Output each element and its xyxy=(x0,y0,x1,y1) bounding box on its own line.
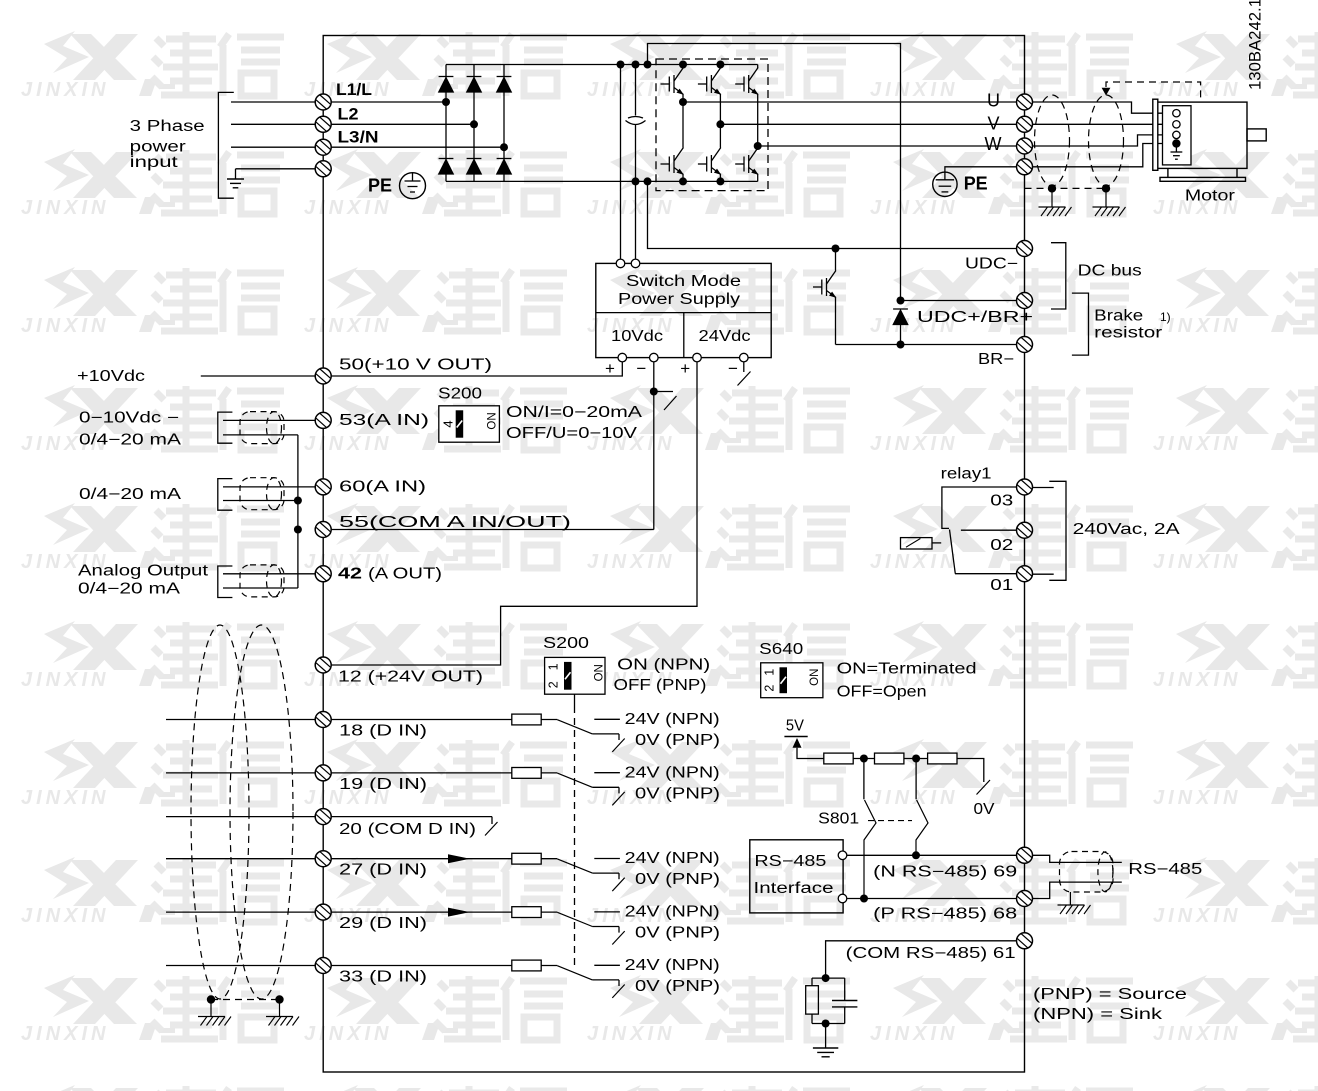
svg-text:S200: S200 xyxy=(543,635,589,652)
svg-text:+: + xyxy=(605,359,615,378)
svg-text:0V: 0V xyxy=(974,801,996,818)
svg-text:L2: L2 xyxy=(338,105,359,123)
svg-text:0V (PNP): 0V (PNP) xyxy=(635,925,720,942)
svg-text:OFF=Open: OFF=Open xyxy=(837,684,927,701)
svg-text:24V (NPN): 24V (NPN) xyxy=(625,711,720,728)
svg-text:(N RS−485) 69: (N RS−485) 69 xyxy=(873,863,1017,880)
svg-text:1: 1 xyxy=(763,669,777,676)
svg-text:33 (D IN): 33 (D IN) xyxy=(339,969,427,986)
svg-text:ON: ON xyxy=(809,669,821,686)
svg-text:ON (NPN): ON (NPN) xyxy=(617,657,710,674)
svg-text:relay1: relay1 xyxy=(941,466,992,483)
svg-text:−: − xyxy=(636,359,646,378)
svg-text:4: 4 xyxy=(440,420,455,427)
svg-text:130BA242.1: 130BA242.1 xyxy=(1247,0,1265,90)
svg-text:0V (PNP): 0V (PNP) xyxy=(635,785,720,802)
svg-text:UDC+/BR+: UDC+/BR+ xyxy=(917,309,1033,326)
svg-text:Analog Output: Analog Output xyxy=(78,562,209,579)
svg-text:01: 01 xyxy=(990,577,1013,594)
svg-text:0V (PNP): 0V (PNP) xyxy=(635,871,720,888)
svg-text:V: V xyxy=(988,114,1000,134)
svg-text:+: + xyxy=(680,359,690,378)
svg-text:0/4−20 mA: 0/4−20 mA xyxy=(78,580,181,597)
svg-text:18 (D IN): 18 (D IN) xyxy=(339,723,427,740)
svg-text:UDC−: UDC− xyxy=(965,256,1018,273)
svg-text:60(A IN): 60(A IN) xyxy=(339,478,426,495)
svg-text:1): 1) xyxy=(1160,310,1171,324)
svg-text:DC bus: DC bus xyxy=(1078,263,1142,280)
svg-text:ON: ON xyxy=(594,664,606,681)
svg-text:24Vdc: 24Vdc xyxy=(699,328,751,345)
svg-text:L1/L: L1/L xyxy=(336,81,372,99)
svg-text:12 (+24V OUT): 12 (+24V OUT) xyxy=(338,669,483,686)
svg-text:ON: ON xyxy=(487,412,499,429)
svg-text:S801: S801 xyxy=(818,811,859,828)
svg-text:resistor: resistor xyxy=(1094,324,1162,341)
svg-text:0/4−20 mA: 0/4−20 mA xyxy=(79,431,182,448)
svg-text:10Vdc: 10Vdc xyxy=(611,328,663,345)
svg-text:50(+10 V OUT): 50(+10 V OUT) xyxy=(339,357,492,374)
svg-text:02: 02 xyxy=(990,537,1013,554)
svg-text:BR−: BR− xyxy=(978,351,1014,368)
svg-text:03: 03 xyxy=(990,492,1013,509)
svg-text:RS−485: RS−485 xyxy=(1128,861,1202,878)
svg-text:Brake: Brake xyxy=(1094,307,1143,324)
svg-text:42: 42 xyxy=(338,565,362,582)
svg-text:24V (NPN): 24V (NPN) xyxy=(625,850,720,867)
svg-text:U: U xyxy=(987,90,1000,110)
svg-text:OFF (PNP): OFF (PNP) xyxy=(614,677,707,694)
svg-text:S200: S200 xyxy=(438,386,482,403)
svg-text:29 (D IN): 29 (D IN) xyxy=(339,915,427,932)
svg-text:19 (D IN): 19 (D IN) xyxy=(339,776,427,793)
svg-text:Interface: Interface xyxy=(754,880,834,897)
svg-text:24V (NPN): 24V (NPN) xyxy=(625,957,720,974)
svg-text:0V (PNP): 0V (PNP) xyxy=(635,978,720,995)
svg-text:2: 2 xyxy=(763,685,777,692)
svg-text:(A OUT): (A OUT) xyxy=(368,565,442,582)
svg-text:5V: 5V xyxy=(786,718,805,735)
svg-text:−: − xyxy=(728,359,738,378)
svg-text:(NPN) = Sink: (NPN) = Sink xyxy=(1033,1006,1162,1023)
svg-text:53(A IN): 53(A IN) xyxy=(339,412,429,429)
svg-text:55(COM A IN/OUT): 55(COM A IN/OUT) xyxy=(339,514,571,531)
svg-text:RS−485: RS−485 xyxy=(754,853,826,870)
svg-text:Power Supply: Power Supply xyxy=(618,291,740,308)
svg-text:ON=Terminated: ON=Terminated xyxy=(837,661,977,678)
svg-text:PE: PE xyxy=(964,174,988,194)
svg-text:0−10Vdc −: 0−10Vdc − xyxy=(79,410,179,427)
svg-text:0V (PNP): 0V (PNP) xyxy=(635,732,720,749)
svg-text:(P RS−485) 68: (P RS−485) 68 xyxy=(873,906,1017,923)
svg-text:W: W xyxy=(985,134,1002,154)
svg-text:L3/N: L3/N xyxy=(338,129,379,147)
svg-text:24V (NPN): 24V (NPN) xyxy=(625,904,720,921)
svg-text:input: input xyxy=(130,154,179,171)
svg-text:20 (COM D IN): 20 (COM D IN) xyxy=(339,821,476,838)
svg-text:ON/I=0−20mA: ON/I=0−20mA xyxy=(506,404,643,421)
svg-text:0/4−20 mA: 0/4−20 mA xyxy=(79,486,182,503)
svg-text:(COM RS−485) 61: (COM RS−485) 61 xyxy=(846,945,1016,962)
svg-text:OFF/U=0−10V: OFF/U=0−10V xyxy=(506,425,638,442)
svg-text:Motor: Motor xyxy=(1185,188,1235,205)
svg-text:3 Phase: 3 Phase xyxy=(130,118,205,135)
svg-text:24V (NPN): 24V (NPN) xyxy=(625,764,720,781)
svg-text:2: 2 xyxy=(547,681,561,688)
svg-text:240Vac, 2A: 240Vac, 2A xyxy=(1073,521,1181,538)
svg-text:27 (D IN): 27 (D IN) xyxy=(339,862,427,879)
svg-text:S640: S640 xyxy=(759,641,803,658)
svg-text:PE: PE xyxy=(368,176,392,196)
svg-text:(PNP) = Source: (PNP) = Source xyxy=(1033,986,1187,1003)
svg-text:1: 1 xyxy=(547,663,561,670)
svg-text:+10Vdc: +10Vdc xyxy=(77,368,145,385)
svg-text:Switch Mode: Switch Mode xyxy=(626,273,741,290)
